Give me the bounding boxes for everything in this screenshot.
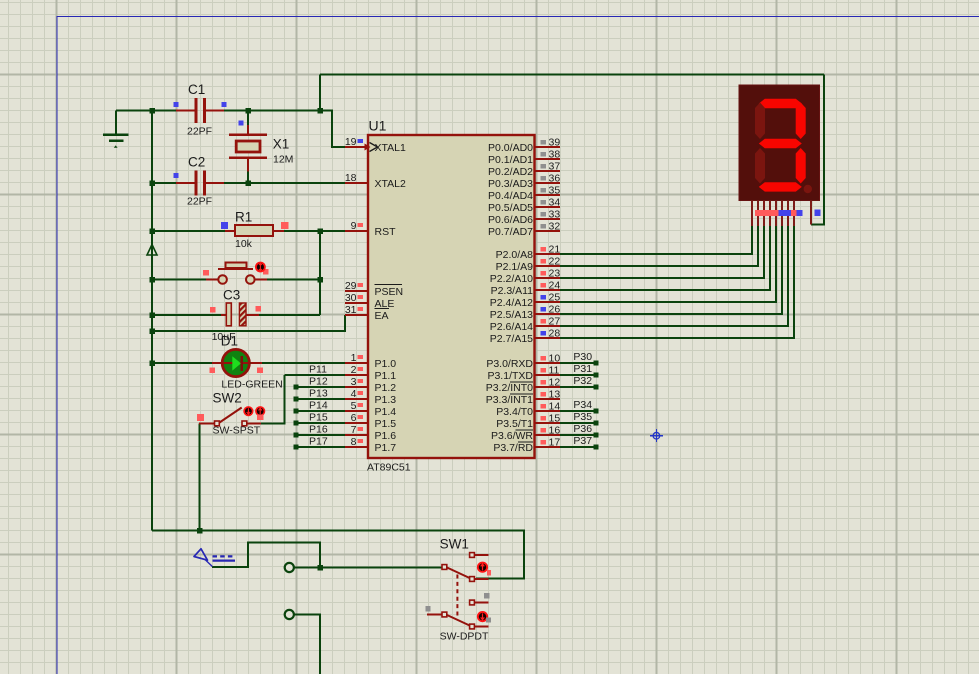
svg-text:P17: P17 bbox=[309, 436, 328, 448]
svg-text:P0.2/AD2: P0.2/AD2 bbox=[488, 166, 533, 178]
svg-text:P2.7/A15: P2.7/A15 bbox=[490, 333, 533, 345]
svg-text:34: 34 bbox=[549, 197, 561, 209]
svg-text:P2.4/A12: P2.4/A12 bbox=[490, 297, 533, 309]
svg-text:U1: U1 bbox=[369, 117, 387, 133]
svg-text:P0.7/AD7: P0.7/AD7 bbox=[488, 226, 533, 238]
svg-text:33: 33 bbox=[549, 209, 561, 221]
svg-text:X1: X1 bbox=[273, 136, 290, 151]
svg-text:P3.4/T0: P3.4/T0 bbox=[496, 406, 533, 418]
svg-text:C3: C3 bbox=[223, 288, 240, 303]
svg-text:21: 21 bbox=[549, 244, 561, 256]
svg-text:15: 15 bbox=[549, 413, 561, 425]
svg-text:P2.6/A14: P2.6/A14 bbox=[490, 321, 533, 333]
svg-text:P2.2/A10: P2.2/A10 bbox=[490, 273, 533, 285]
svg-text:12: 12 bbox=[549, 377, 561, 389]
svg-text:22: 22 bbox=[549, 256, 561, 268]
svg-text:EA: EA bbox=[375, 310, 389, 322]
svg-text:P34: P34 bbox=[573, 399, 592, 411]
svg-text:P0.5/AD5: P0.5/AD5 bbox=[488, 202, 533, 214]
svg-text:P11: P11 bbox=[309, 364, 327, 376]
svg-text:P2.1/A9: P2.1/A9 bbox=[496, 261, 534, 273]
svg-text:P3.7/RD: P3.7/RD bbox=[493, 442, 533, 454]
svg-text:32: 32 bbox=[549, 221, 561, 233]
svg-text:P12: P12 bbox=[309, 376, 328, 388]
svg-text:SW1: SW1 bbox=[440, 537, 469, 552]
svg-text:P3.0/RXD: P3.0/RXD bbox=[486, 358, 533, 370]
svg-text:P0.4/AD4: P0.4/AD4 bbox=[488, 190, 533, 202]
svg-text:P1.2: P1.2 bbox=[375, 382, 397, 394]
svg-text:P15: P15 bbox=[309, 412, 328, 424]
svg-text:P0.3/AD3: P0.3/AD3 bbox=[488, 178, 533, 190]
svg-text:19: 19 bbox=[345, 136, 357, 148]
svg-text:P1.7: P1.7 bbox=[375, 442, 397, 454]
svg-text:SW-DPDT: SW-DPDT bbox=[440, 631, 489, 643]
svg-text:XTAL2: XTAL2 bbox=[375, 178, 406, 190]
svg-text:P0.0/AD0: P0.0/AD0 bbox=[488, 142, 533, 154]
svg-text:29: 29 bbox=[345, 280, 357, 292]
svg-text:ALE: ALE bbox=[375, 298, 395, 310]
svg-text:PSEN: PSEN bbox=[375, 286, 404, 298]
svg-text:1: 1 bbox=[351, 352, 357, 364]
svg-text:P14: P14 bbox=[309, 400, 328, 412]
svg-text:23: 23 bbox=[549, 268, 561, 280]
svg-text:XTAL1: XTAL1 bbox=[375, 142, 406, 154]
svg-text:P3.1/TXD: P3.1/TXD bbox=[487, 370, 533, 382]
svg-text:38: 38 bbox=[549, 149, 561, 161]
svg-text:12M: 12M bbox=[273, 153, 293, 165]
svg-text:22PF: 22PF bbox=[187, 126, 212, 138]
svg-text:C1: C1 bbox=[188, 82, 205, 97]
svg-text:28: 28 bbox=[549, 328, 561, 340]
svg-text:37: 37 bbox=[549, 161, 561, 173]
svg-text:P1.5: P1.5 bbox=[375, 418, 397, 430]
svg-text:C2: C2 bbox=[188, 155, 205, 170]
svg-text:P1.0: P1.0 bbox=[375, 358, 397, 370]
svg-text:22PF: 22PF bbox=[187, 196, 212, 208]
svg-text:P2.0/A8: P2.0/A8 bbox=[496, 249, 534, 261]
svg-text:P0.1/AD1: P0.1/AD1 bbox=[488, 154, 533, 166]
svg-text:14: 14 bbox=[549, 401, 561, 413]
svg-text:P3.2/INT0: P3.2/INT0 bbox=[486, 382, 533, 394]
svg-text:LED-GREEN: LED-GREEN bbox=[221, 379, 282, 391]
svg-text:35: 35 bbox=[549, 185, 561, 197]
svg-text:SW-SPST: SW-SPST bbox=[213, 425, 261, 437]
svg-text:P35: P35 bbox=[573, 411, 592, 423]
svg-text:P3.5/T1: P3.5/T1 bbox=[496, 418, 533, 430]
svg-text:30: 30 bbox=[345, 292, 357, 304]
svg-text:39: 39 bbox=[549, 137, 561, 149]
svg-text:P30: P30 bbox=[573, 351, 592, 363]
svg-text:31: 31 bbox=[345, 304, 357, 316]
svg-text:26: 26 bbox=[549, 304, 561, 316]
svg-text:P1.6: P1.6 bbox=[375, 430, 397, 442]
svg-text:3: 3 bbox=[351, 376, 357, 388]
svg-text:P16: P16 bbox=[309, 424, 328, 436]
svg-text:P31: P31 bbox=[573, 363, 592, 375]
svg-text:11: 11 bbox=[549, 365, 560, 377]
svg-text:10k: 10k bbox=[235, 238, 253, 250]
svg-text:P1.4: P1.4 bbox=[375, 406, 397, 418]
svg-text:P36: P36 bbox=[573, 423, 592, 435]
svg-text:P13: P13 bbox=[309, 388, 328, 400]
svg-text:SW2: SW2 bbox=[213, 391, 242, 406]
svg-text:D1: D1 bbox=[221, 334, 238, 349]
svg-text:10: 10 bbox=[549, 353, 561, 365]
svg-text:18: 18 bbox=[345, 172, 357, 184]
svg-text:6: 6 bbox=[351, 412, 357, 424]
svg-text:16: 16 bbox=[549, 425, 561, 437]
svg-text:13: 13 bbox=[549, 389, 561, 401]
svg-text:RST: RST bbox=[375, 226, 397, 238]
svg-text:24: 24 bbox=[549, 280, 561, 292]
svg-text:17: 17 bbox=[549, 437, 561, 449]
svg-text:2: 2 bbox=[351, 364, 357, 376]
svg-text:P3.3/INT1: P3.3/INT1 bbox=[486, 394, 533, 406]
svg-text:R1: R1 bbox=[235, 210, 252, 225]
svg-text:25: 25 bbox=[549, 292, 561, 304]
svg-text:P32: P32 bbox=[573, 375, 592, 387]
svg-text:9: 9 bbox=[351, 220, 357, 232]
svg-text:P2.3/A11: P2.3/A11 bbox=[491, 285, 534, 297]
svg-text:P2.5/A13: P2.5/A13 bbox=[490, 309, 533, 321]
svg-text:P0.6/AD6: P0.6/AD6 bbox=[488, 214, 533, 226]
svg-text:27: 27 bbox=[549, 316, 561, 328]
svg-text:4: 4 bbox=[351, 388, 357, 400]
svg-text:P3.6/WR: P3.6/WR bbox=[491, 430, 533, 442]
svg-text:36: 36 bbox=[549, 173, 561, 185]
svg-text:P37: P37 bbox=[573, 435, 592, 447]
svg-text:P1.3: P1.3 bbox=[375, 394, 397, 406]
svg-text:AT89C51: AT89C51 bbox=[367, 462, 411, 474]
svg-text:5: 5 bbox=[351, 400, 357, 412]
svg-text:P1.1: P1.1 bbox=[375, 370, 397, 382]
svg-text:8: 8 bbox=[351, 436, 357, 448]
svg-text:7: 7 bbox=[351, 424, 357, 436]
